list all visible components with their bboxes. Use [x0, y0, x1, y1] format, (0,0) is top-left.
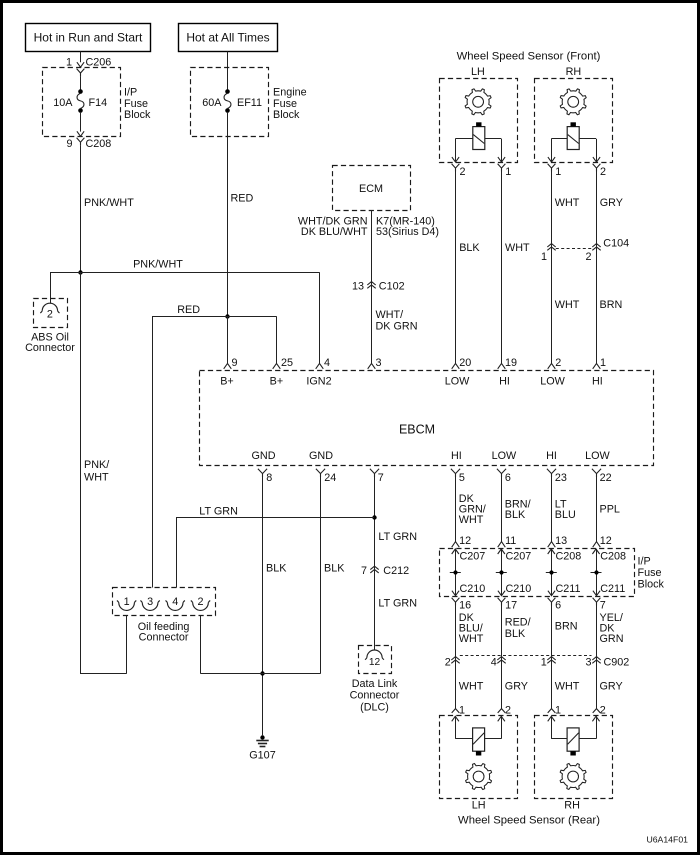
rear RH sensor box: [535, 716, 613, 799]
svg-text:WHT: WHT: [459, 514, 484, 526]
connector C208 female half: [77, 138, 85, 146]
EBCM bottom pin 6 terminal: [497, 469, 511, 484]
junction node LT GRN: [372, 515, 376, 519]
svg-text:C206: C206: [86, 57, 112, 69]
svg-text:DK GRN: DK GRN: [376, 321, 418, 333]
label I/P Fuse Block (top): [124, 87, 151, 122]
label I/P Fuse Block: [638, 556, 665, 591]
wire: RED drop to oil feeding connector pin 3: [152, 316, 154, 587]
label Oil feeding Connector: [138, 621, 190, 643]
svg-text:Fuse: Fuse: [638, 567, 662, 579]
svg-text:BLU: BLU: [555, 509, 576, 521]
svg-text:Wheel Speed Sensor (Front): Wheel Speed Sensor (Front): [457, 50, 601, 62]
EBCM bottom pin 5 terminal: [451, 469, 465, 484]
connector C211 arrow inside: [548, 583, 581, 596]
connector C208 arrow inside: [592, 549, 626, 563]
label pin 3: [376, 357, 382, 369]
wire: header to engine fuse block: [227, 52, 229, 91]
connector C210 female below: [452, 598, 472, 612]
label Wheel Speed Sensor (Rear): [458, 814, 600, 826]
EBCM bottom pin 8 terminal: [258, 469, 272, 484]
rear LH tone wheel (gear): [466, 764, 492, 790]
svg-text:6: 6: [555, 599, 561, 611]
connector C102: [352, 281, 405, 293]
svg-text:BLK: BLK: [505, 509, 526, 521]
connector C212: [361, 565, 409, 577]
svg-text:2: 2: [600, 705, 606, 717]
front LH sensor box: [440, 79, 518, 163]
EBCM bottom pin 7 terminal: [370, 469, 384, 484]
svg-text:GRN: GRN: [600, 633, 624, 645]
junction node PNK/WHT: [78, 270, 82, 274]
connector C207 arrow inside: [452, 549, 486, 563]
svg-text:4: 4: [491, 657, 497, 669]
svg-text:2: 2: [445, 657, 451, 669]
label front RH pin 1: [555, 166, 561, 178]
front LH connector females: [452, 164, 506, 172]
svg-text:1: 1: [459, 705, 465, 717]
svg-text:C211: C211: [600, 583, 625, 595]
svg-text:7: 7: [600, 599, 606, 611]
EBCM top pin labels: [220, 376, 603, 388]
svg-text:1: 1: [541, 251, 547, 263]
wire: I/P block to C902 pin 2: [456, 605, 484, 660]
header box: Hot at All Times: [179, 24, 278, 52]
svg-text:25: 25: [281, 357, 293, 369]
wire: oil feeding pin 2 drop: [200, 616, 202, 674]
svg-text:1: 1: [66, 57, 72, 69]
label pin 25: [281, 357, 293, 369]
svg-text:IGN2: IGN2: [306, 376, 331, 388]
Engine fuse block dashed box: [191, 68, 269, 137]
wire: LT GRN drop to oil feeding pin 4: [176, 518, 178, 588]
svg-text:9: 9: [232, 357, 238, 369]
svg-text:Engine: Engine: [273, 87, 307, 99]
EBCM pin 25 terminal: [273, 363, 281, 368]
wire: EBCM pin 7 LT GRN down: [375, 477, 418, 570]
svg-text:DK BLU/WHT: DK BLU/WHT: [301, 226, 368, 238]
wire: PNK/WHT vertical to oil feeding connector pin 1: [81, 272, 110, 673]
svg-text:RED: RED: [177, 304, 200, 316]
svg-text:C210: C210: [460, 583, 486, 595]
svg-text:RED/: RED/: [505, 616, 531, 628]
rear RH tone wheel (gear): [560, 764, 586, 790]
svg-text:WHT: WHT: [505, 242, 530, 254]
wire: PNK/WHT horizontal branch: [50, 259, 320, 273]
connector C207 terminal (wire into I/P block): [498, 535, 517, 547]
wire: front RH WHT upper: [552, 172, 580, 248]
DLC cavity 12: [365, 650, 384, 668]
connector C206 female half: [77, 69, 85, 77]
splice node in I/P block col 7: [591, 570, 602, 574]
svg-text:F14: F14: [89, 97, 108, 109]
svg-text:LOW: LOW: [585, 450, 610, 462]
wire: C902 to rear sensor, WHT: [456, 660, 484, 709]
svg-text:C210: C210: [506, 583, 532, 595]
svg-text:11: 11: [505, 535, 516, 547]
connector C211 female below: [548, 598, 562, 612]
svg-text:4: 4: [324, 357, 330, 369]
svg-text:7: 7: [378, 472, 384, 484]
wire: front RH BRN lower to EBCM pin 1: [597, 247, 623, 363]
oil feeding cavity 2: [191, 596, 210, 610]
label front LH pin 2: [460, 166, 466, 178]
wire: EF11 down RED: [228, 112, 254, 316]
svg-text:12: 12: [369, 657, 381, 668]
wire: EBCM pin 23 down to I/P fuse block: [552, 477, 576, 542]
svg-text:WHT: WHT: [459, 633, 484, 645]
svg-text:C208: C208: [556, 551, 582, 563]
connector C208 terminal (wire into I/P block): [548, 535, 567, 547]
label ECM pins right: [376, 215, 439, 238]
svg-text:2: 2: [585, 251, 591, 263]
svg-text:BLK: BLK: [266, 563, 287, 575]
svg-text:WHT: WHT: [555, 299, 580, 311]
svg-text:B+: B+: [270, 376, 284, 388]
svg-text:1: 1: [541, 657, 547, 669]
front RH sensor wires: [551, 139, 596, 162]
svg-text:GND: GND: [252, 450, 276, 462]
svg-text:C212: C212: [383, 565, 409, 577]
header box: Hot in Run and Start: [26, 24, 151, 52]
connector C211 arrow inside: [593, 583, 625, 596]
label ABS Oil Connector: [25, 332, 75, 355]
wire: drop to ABS oil connector: [50, 272, 52, 303]
connector C210 female below: [498, 598, 518, 612]
connector C208 arrow (male): [77, 131, 84, 136]
svg-text:LOW: LOW: [540, 376, 565, 388]
I/P fuse block (top) dashed box: [43, 68, 121, 137]
svg-text:ECM: ECM: [359, 183, 383, 195]
svg-text:LH: LH: [472, 800, 486, 812]
label RH (front): [566, 66, 582, 78]
svg-text:C207: C207: [460, 551, 486, 563]
svg-text:23: 23: [555, 472, 567, 484]
connector C902 pin 4: [491, 657, 506, 669]
ECM dashed box: [333, 166, 411, 211]
svg-text:PNK/: PNK/: [84, 459, 109, 471]
svg-text:1: 1: [600, 357, 606, 369]
svg-text:HI: HI: [499, 376, 510, 388]
connector C902 dashed line and label: [460, 656, 630, 669]
EBCM pin 20 terminal: [452, 357, 472, 369]
EBCM pin 2 terminal: [548, 357, 562, 369]
wire: header to C206: [80, 52, 82, 63]
label drawing number U6A14F01: [646, 835, 688, 845]
label Wheel Speed Sensor (Front): [457, 50, 601, 62]
svg-text:2: 2: [555, 357, 561, 369]
wire: EBCM pin 8 BLK down: [263, 477, 288, 735]
svg-text:LOW: LOW: [445, 376, 470, 388]
svg-text:HI: HI: [546, 450, 557, 462]
rear RH pin 2 terminal: [593, 705, 606, 717]
rear LH sensor box: [440, 716, 518, 799]
svg-text:7: 7: [361, 565, 367, 577]
svg-text:LT GRN: LT GRN: [378, 531, 417, 543]
rear RH pin arrows inside: [548, 716, 600, 721]
wire: front RH GRY upper: [597, 172, 623, 248]
svg-text:C208: C208: [600, 551, 626, 563]
svg-text:LOW: LOW: [492, 450, 517, 462]
label pin 9: [232, 357, 238, 369]
wire: front LH WHT to EBCM pin 19: [502, 172, 530, 364]
wire: ground bus horizontal: [201, 673, 321, 675]
svg-text:I/P: I/P: [638, 556, 651, 568]
svg-text:20: 20: [459, 357, 471, 369]
svg-text:HI: HI: [592, 376, 603, 388]
connector C210 arrow inside: [498, 583, 531, 596]
svg-text:10A: 10A: [53, 97, 73, 109]
label pin 9 C208: [66, 138, 111, 150]
wire: LT GRN horizontal branch: [176, 506, 374, 518]
wire: front RH WHT lower to EBCM pin 2: [552, 247, 580, 363]
svg-text:U6A14F01: U6A14F01: [646, 835, 688, 845]
wire: EBCM pin 5 down to I/P fuse block: [456, 477, 486, 542]
front RH pin arrows at box edge: [548, 157, 600, 162]
junction node RED: [225, 314, 229, 318]
wire: C212 to DLC, LT GRN: [375, 570, 418, 650]
svg-text:C207: C207: [506, 551, 532, 563]
oil feeding cavity 3: [140, 596, 159, 611]
svg-text:5: 5: [459, 472, 465, 484]
connector C902 pin 1: [541, 657, 556, 669]
wire: RED horizontal branch: [152, 304, 276, 317]
wire: ECM to C102: [371, 210, 373, 286]
svg-text:PNK/WHT: PNK/WHT: [133, 259, 183, 271]
connector C206 arrow (male): [77, 62, 84, 67]
wire: I/P block to C902 pin 4: [502, 605, 531, 660]
EBCM bottom pin 22 terminal: [592, 469, 612, 484]
wire: I/P block to C902 pin 3: [597, 605, 624, 660]
connector C902 pin 3: [585, 657, 600, 669]
svg-text:Data Link: Data Link: [352, 678, 398, 690]
wire: EBCM pin 22 down to I/P fuse block: [597, 477, 620, 542]
svg-text:1: 1: [555, 166, 561, 178]
svg-text:Block: Block: [124, 109, 151, 121]
svg-text:2: 2: [197, 596, 203, 608]
EBCM bottom pin 23 terminal: [547, 469, 567, 484]
EBCM pin 1 terminal: [593, 357, 606, 369]
EBCM bottom pin labels: [252, 450, 611, 462]
front LH pin arrows at box edge: [452, 157, 505, 162]
wire: oil pin1 to PNK/WHT: [80, 616, 127, 674]
rear RH sensor element: [567, 728, 579, 756]
svg-text:17: 17: [505, 599, 517, 611]
svg-text:3: 3: [376, 357, 382, 369]
label front RH pin 2: [600, 166, 606, 178]
wire: PNK/WHT to EBCM pin 4: [319, 272, 321, 363]
connector C208 terminal (wire into I/P block): [593, 535, 612, 547]
connector C207 arrow inside: [498, 549, 532, 563]
label pin 4: [324, 357, 330, 369]
EBCM pin 19 terminal: [498, 357, 517, 369]
I/P block internal wire col 6: [551, 549, 553, 596]
wire: EBCM pin 24 BLK down: [321, 477, 346, 674]
svg-text:LH: LH: [471, 66, 485, 78]
svg-text:B+: B+: [220, 376, 234, 388]
svg-text:Wheel Speed Sensor (Rear): Wheel Speed Sensor (Rear): [458, 814, 600, 826]
svg-text:LT GRN: LT GRN: [199, 506, 238, 518]
svg-text:12: 12: [600, 535, 612, 547]
svg-text:LT GRN: LT GRN: [378, 597, 417, 609]
svg-text:GND: GND: [309, 450, 333, 462]
label LH (rear): [472, 800, 486, 812]
connector C207 terminal (wire into I/P block): [452, 535, 471, 547]
svg-text:C208: C208: [86, 138, 112, 150]
rear LH pin 2 terminal: [498, 705, 511, 717]
svg-text:WHT/: WHT/: [376, 309, 404, 321]
svg-text:Connector: Connector: [350, 690, 400, 702]
label RH (rear): [564, 800, 580, 812]
connector C208 arrow inside: [548, 549, 582, 563]
svg-text:C902: C902: [604, 657, 630, 669]
svg-text:RED: RED: [231, 193, 254, 205]
rear RH pin 1 terminal: [548, 705, 561, 717]
svg-text:HI: HI: [451, 450, 462, 462]
label front LH pin 1: [505, 166, 511, 178]
wire: C206 to fuse F14: [80, 76, 82, 90]
EBCM dashed box: [200, 371, 654, 466]
svg-text:1: 1: [505, 166, 511, 178]
svg-text:Hot in Run and Start: Hot in Run and Start: [34, 31, 143, 45]
label Engine Fuse Block: [273, 87, 307, 122]
wire: I/P block to C902 pin 1: [552, 605, 578, 660]
svg-text:WHT: WHT: [459, 680, 484, 692]
svg-text:1: 1: [555, 705, 561, 717]
front RH connector females: [548, 164, 601, 172]
svg-text:53(Sirius D4): 53(Sirius D4): [376, 226, 439, 238]
connector C104: [541, 238, 629, 264]
svg-text:12: 12: [459, 535, 471, 547]
svg-text:2: 2: [600, 166, 606, 178]
Oil feeding connector box: [113, 588, 216, 616]
svg-text:BLK: BLK: [324, 563, 345, 575]
wire: EBCM pin 6 down to I/P fuse block: [502, 477, 531, 542]
ground symbol G107: [249, 735, 275, 761]
front RH tone wheel (gear): [560, 89, 586, 115]
Data Link Connector box: [359, 646, 392, 674]
svg-text:Block: Block: [273, 109, 300, 121]
svg-text:BRN: BRN: [600, 299, 623, 311]
svg-text:1: 1: [124, 596, 130, 608]
svg-text:C211: C211: [556, 583, 581, 595]
I/P block internal wire col 17: [501, 549, 503, 596]
label LH (front): [471, 66, 485, 78]
wire: C902 to rear sensor, GRY: [597, 660, 623, 709]
wire: C902 to rear sensor, WHT: [552, 660, 580, 709]
front LH sensor element: [473, 122, 485, 149]
wire: C902 to rear sensor, GRY: [502, 660, 529, 709]
oil feeding cavity 1: [117, 596, 136, 611]
wire: fuse to C208: [80, 112, 82, 132]
connector C902 pin 2: [445, 657, 460, 669]
svg-text:GRY: GRY: [600, 680, 623, 692]
rear LH pin 1 terminal: [452, 705, 465, 717]
splice node in I/P block col 16: [450, 570, 461, 574]
front RH sensor box: [535, 79, 613, 163]
svg-text:16: 16: [459, 599, 471, 611]
svg-text:Fuse: Fuse: [273, 98, 297, 110]
oil feeding cavity 4: [166, 596, 185, 610]
I/P block internal wire col 16: [455, 549, 457, 596]
svg-text:EBCM: EBCM: [399, 423, 435, 437]
svg-text:4: 4: [172, 596, 178, 608]
svg-text:WHT: WHT: [84, 471, 109, 483]
I/P block internal wire col 7: [596, 549, 598, 596]
front LH tone wheel (gear): [465, 89, 491, 115]
svg-text:PPL: PPL: [600, 504, 620, 516]
splice node in I/P block col 17: [496, 570, 507, 574]
label Data Link Connector (DLC): [350, 678, 400, 713]
front RH sensor element: [567, 122, 579, 149]
EBCM pin 4 terminal: [316, 363, 324, 368]
svg-text:WHT: WHT: [555, 680, 580, 692]
svg-text:6: 6: [505, 472, 511, 484]
svg-text:Fuse: Fuse: [124, 98, 148, 110]
wire: RED to EBCM pin 25 (B+): [276, 316, 278, 363]
I/P fuse block (lower) dashed box: [440, 549, 635, 597]
EBCM pin 9 terminal: [224, 363, 232, 368]
svg-text:Hot at All Times: Hot at All Times: [186, 31, 269, 45]
wire: front LH BLK to EBCM pin 20: [456, 172, 481, 364]
rear LH sensor wires: [455, 716, 501, 739]
svg-text:3: 3: [585, 657, 591, 669]
svg-text:(DLC): (DLC): [360, 701, 389, 713]
svg-text:PNK/WHT: PNK/WHT: [84, 197, 134, 209]
svg-text:60A: 60A: [202, 97, 222, 109]
splice node in I/P block col 6: [546, 570, 557, 574]
svg-text:I/P: I/P: [124, 87, 137, 99]
label wire colors left of ECM wire: [298, 215, 368, 238]
svg-text:3: 3: [147, 596, 153, 608]
svg-text:24: 24: [324, 472, 336, 484]
svg-text:RH: RH: [566, 66, 582, 78]
rear LH sensor element: [473, 728, 485, 756]
svg-text:BLK: BLK: [459, 242, 480, 254]
connector C210 arrow inside: [452, 583, 485, 596]
junction node ground bus: [260, 671, 264, 675]
svg-text:C104: C104: [603, 238, 629, 250]
svg-text:WHT: WHT: [555, 197, 580, 209]
svg-text:13: 13: [555, 535, 567, 547]
svg-text:2: 2: [460, 166, 466, 178]
svg-text:C102: C102: [379, 281, 405, 293]
svg-text:13: 13: [352, 281, 364, 293]
svg-text:GRY: GRY: [505, 680, 528, 692]
EBCM bottom pin 24 terminal: [316, 469, 336, 484]
svg-text:BLK: BLK: [505, 628, 526, 640]
rear RH sensor wires: [551, 716, 596, 739]
rear LH pin arrows inside: [452, 716, 505, 721]
svg-text:Connector: Connector: [139, 631, 189, 643]
svg-text:G107: G107: [249, 750, 275, 762]
connector C211 female below: [593, 598, 606, 612]
svg-text:Connector: Connector: [25, 342, 75, 354]
fuse F14 10A: [53, 89, 107, 113]
ABS Oil Connector cavity 2: [40, 303, 59, 320]
svg-text:22: 22: [600, 472, 612, 484]
svg-text:GRY: GRY: [600, 197, 623, 209]
wire: C102 to EBCM pin 3, WHT/DK GRN: [372, 286, 418, 363]
label pin 1 C206: [66, 57, 111, 69]
svg-text:RH: RH: [564, 800, 580, 812]
ABS Oil Connector box: [34, 299, 68, 328]
front LH sensor wires: [455, 139, 501, 162]
wire: RED to EBCM pin 9 (B+): [227, 316, 229, 363]
svg-text:8: 8: [266, 472, 272, 484]
svg-text:EF11: EF11: [237, 97, 262, 109]
EBCM pin 3 terminal: [368, 363, 376, 368]
